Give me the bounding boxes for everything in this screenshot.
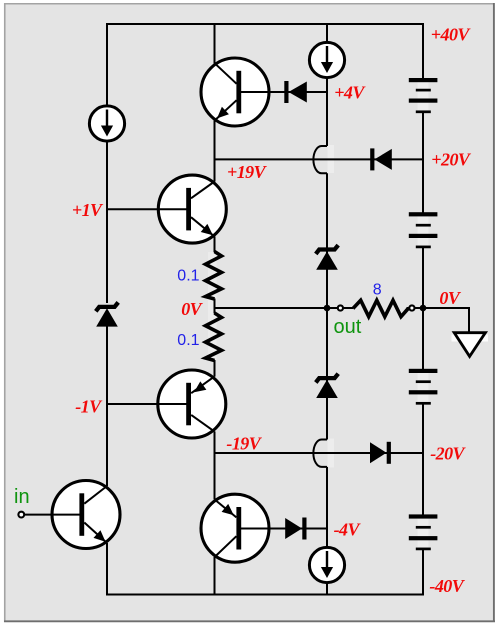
ground symbol: [454, 333, 485, 357]
battery B3 plates: [409, 369, 438, 405]
svg-text:-4V: -4V: [334, 520, 362, 540]
zener D6 upper on third rail: [316, 245, 338, 270]
svg-text:in: in: [14, 486, 30, 508]
base lead redraw Q1: [159, 208, 187, 210]
wire left rail below transistor Q5: [106, 543, 108, 596]
wire right rail between B3 and B4: [422, 404, 424, 515]
zener D5 on left rail: [96, 302, 118, 326]
transistor Q4 bottom driver: [201, 494, 269, 562]
wire second rail between Q1 and R1: [214, 236, 216, 252]
wire top bus: [106, 23, 423, 25]
wire third rail below current source I3: [326, 584, 328, 596]
ground white band: [452, 335, 489, 342]
svg-text:0.1: 0.1: [177, 332, 199, 349]
highlight band behind battery B4: [418, 516, 429, 549]
svg-text:out: out: [334, 316, 362, 338]
terminal circle input: [18, 512, 24, 518]
svg-text:+40V: +40V: [431, 25, 472, 45]
highlight band behind resistors R1 R2: [208, 252, 217, 360]
current source I1 top left: [89, 106, 124, 141]
base lead redraw Q5: [53, 514, 80, 516]
wire right rail between B2 and B3: [422, 247, 424, 369]
base lead redraw Q4: [241, 528, 270, 530]
diode D2 at +20V pointing left: [370, 148, 392, 170]
svg-text:+19V: +19V: [227, 162, 268, 182]
wire 0V row left part: [215, 307, 354, 309]
svg-text:-19V: -19V: [226, 434, 262, 454]
highlight band behind upper wire hop: [328, 145, 335, 173]
wire third rail below current source I2: [326, 79, 328, 146]
svg-text:0V: 0V: [439, 288, 461, 308]
base lead redraw Q2: [241, 91, 270, 93]
transistor Q3 lower middle: [158, 370, 226, 438]
wire second rail below Q4: [214, 557, 216, 596]
highlight band behind battery B2: [418, 214, 429, 247]
svg-text:0V: 0V: [181, 299, 203, 319]
wire -4V row: [240, 528, 327, 530]
wire left rail below zener D5: [106, 326, 108, 486]
wire input lead: [22, 514, 81, 516]
wire second rail between R2 and Q3: [214, 360, 216, 377]
wire second rail between Q2 and Q1: [214, 121, 216, 182]
battery B2 plates: [409, 212, 438, 248]
svg-text:8: 8: [373, 281, 382, 298]
wire -1V row: [107, 403, 187, 405]
svg-text:0.1: 0.1: [177, 268, 199, 285]
base lead redraw Q3: [159, 403, 187, 405]
wire third rail middle segment: [326, 173, 328, 439]
wire right rail top segment: [422, 23, 424, 78]
wire -19V row: [215, 452, 424, 454]
zener D7 lower on third rail: [316, 374, 338, 398]
wire second rail at 0V node: [214, 299, 216, 314]
current source I3 bottom: [309, 547, 344, 582]
battery B4 plates: [409, 514, 438, 550]
wire third rail top segment: [326, 23, 328, 42]
transistor Q1 upper middle: [158, 175, 226, 243]
wire second rail between Q3 and Q4: [214, 431, 216, 499]
junction dot at out node: [324, 305, 331, 312]
current source I2 top right: [309, 42, 344, 77]
transistor Q2 top driver: [201, 58, 269, 126]
hop of third rail over +20V row: [313, 146, 327, 173]
transistor Q5 input: [52, 481, 120, 549]
wire +20V row: [215, 158, 424, 160]
hop of third rail over -20V row: [313, 440, 327, 467]
resistor R1 value 0.1: [206, 252, 222, 300]
diode D1 at +4V pointing left: [284, 81, 307, 103]
wire right rail between B1 and B2: [422, 112, 424, 213]
wire third rail below lower hop: [326, 467, 328, 547]
diode D4 at -4V pointing right: [285, 518, 306, 540]
wire 0V row right part with ground stub: [407, 308, 470, 333]
svg-text:+20V: +20V: [431, 149, 472, 169]
terminal circle left of resistor R3: [338, 305, 343, 310]
junction dot on right rail 0V: [420, 305, 427, 312]
diode D3 at -20V pointing right: [370, 442, 391, 464]
terminal circle right of resistor R3: [409, 305, 414, 310]
resistor R3 value 8: [353, 300, 408, 316]
svg-text:-1V: -1V: [75, 396, 103, 416]
svg-text:+1V: +1V: [72, 200, 104, 220]
svg-text:-20V: -20V: [430, 443, 466, 463]
wire left rail below current source I1: [106, 142, 108, 303]
wire second rail top segment: [214, 23, 216, 64]
wire bottom bus: [106, 594, 424, 596]
wire +1V row: [107, 208, 187, 210]
svg-text:+4V: +4V: [334, 82, 366, 102]
highlight band behind battery B1: [418, 80, 429, 112]
svg-text:-40V: -40V: [429, 576, 465, 596]
wire +4V row: [240, 91, 327, 93]
highlight band behind lower wire hop: [328, 439, 335, 468]
wire left rail upper segment: [106, 23, 108, 105]
wire right rail below B4: [422, 548, 424, 595]
battery B1 plates: [409, 78, 438, 113]
highlight band behind battery B3: [418, 371, 429, 403]
resistor R2 value 0.1: [206, 313, 222, 361]
